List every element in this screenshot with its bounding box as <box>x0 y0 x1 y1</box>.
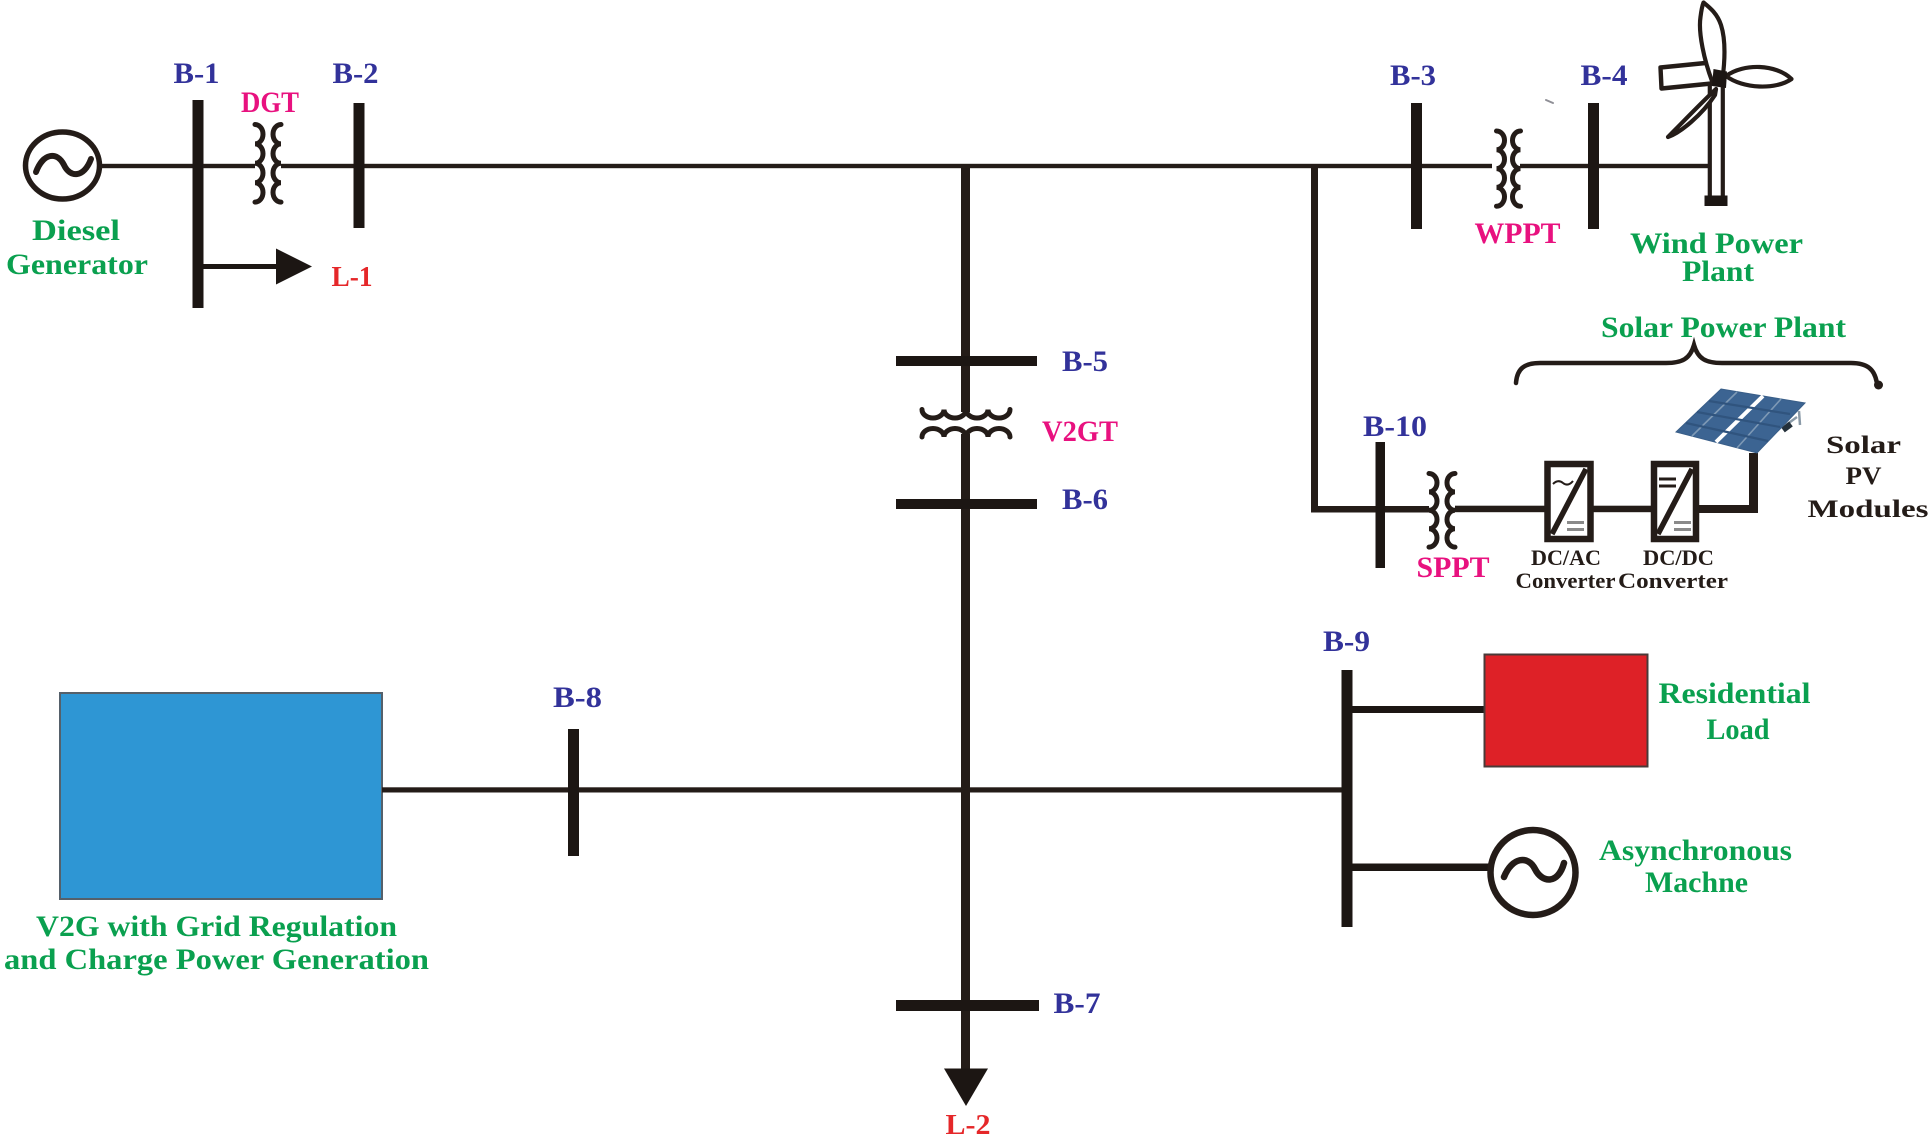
transformer DGT <box>255 125 281 203</box>
wire DGT to B-2 and main top line to B-3 <box>281 164 1492 168</box>
load arrow L-2 <box>944 1069 988 1107</box>
wire DC/AC to DC/DC <box>1590 506 1652 513</box>
svg-text:Load: Load <box>1707 714 1771 746</box>
load arrow L-1 <box>203 249 312 285</box>
svg-text:V2GT: V2GT <box>1042 416 1118 448</box>
wire DC/DC to solar PV modules <box>1696 453 1758 513</box>
svg-text:B-1: B-1 <box>174 58 220 90</box>
svg-text:B-10: B-10 <box>1363 411 1427 443</box>
svg-text:L-2: L-2 <box>946 1110 991 1138</box>
label converter U2 DC/DC Converter <box>1618 545 1728 593</box>
svg-text:Converter: Converter <box>1516 568 1616 593</box>
svg-text:B-5: B-5 <box>1062 346 1108 378</box>
svg-text:Generator: Generator <box>6 249 148 281</box>
stray mark <box>1546 100 1553 103</box>
converter U1 DC/AC <box>1548 464 1591 539</box>
bottom feeder wire from V2G block to B-9 <box>382 787 1347 792</box>
svg-text:B-8: B-8 <box>553 682 602 714</box>
wire B-9 to asynchronous machine <box>1352 864 1489 872</box>
svg-text:Modules: Modules <box>1808 496 1929 523</box>
svg-text:B-7: B-7 <box>1054 988 1101 1020</box>
svg-text:PV: PV <box>1846 463 1882 490</box>
wire B-1 to DGT <box>203 164 255 168</box>
svg-text:DGT: DGT <box>241 87 299 119</box>
bus B-6 <box>896 499 1037 509</box>
svg-text:SPPT: SPPT <box>1417 552 1490 584</box>
bus B-3 <box>1411 103 1422 229</box>
svg-text:Solar: Solar <box>1826 432 1901 459</box>
svg-text:Machne: Machne <box>1645 867 1748 899</box>
bus B-5 <box>896 356 1037 366</box>
transformer SPPT <box>1429 474 1455 548</box>
bus B-7 <box>896 1000 1039 1011</box>
svg-text:DC/AC: DC/AC <box>1531 545 1601 570</box>
svg-text:and Charge Power Generation: and Charge Power Generation <box>4 943 429 976</box>
converter U2 DC/DC <box>1654 464 1696 539</box>
svg-text:Plant: Plant <box>1682 256 1754 288</box>
V2G block (blue rectangle) <box>60 693 382 899</box>
label V2G with Grid Regulation and Charge Power Generation <box>4 910 429 976</box>
svg-text:L-1: L-1 <box>332 262 373 293</box>
residential load block (red rectangle) <box>1485 655 1648 767</box>
svg-text:Asynchronous: Asynchronous <box>1599 835 1792 867</box>
wire drop from main line to SPPT row <box>1311 166 1429 513</box>
bus B-10 <box>1376 442 1386 568</box>
bus B-9 <box>1342 670 1353 927</box>
asynchronous machine M1 <box>1491 830 1576 915</box>
central feeder wire (top segment to V2GT) <box>961 166 970 412</box>
svg-text:Diesel: Diesel <box>32 215 120 247</box>
svg-text:Solar Power Plant: Solar Power Plant <box>1601 312 1846 344</box>
brace over Solar Power Plant <box>1516 345 1883 390</box>
svg-text:V2G with Grid Regulation: V2G with Grid Regulation <box>36 910 397 943</box>
central feeder wire (V2GT down to L-2 arrow) <box>961 434 970 1069</box>
label Wind Power Plant <box>1630 228 1803 288</box>
wind turbine (Wind Power Plant) <box>1661 3 1792 207</box>
svg-text:B-6: B-6 <box>1062 484 1108 516</box>
svg-text:B-3: B-3 <box>1390 60 1436 92</box>
svg-text:DC/DC: DC/DC <box>1643 545 1714 570</box>
svg-text:WPPT: WPPT <box>1475 218 1561 250</box>
svg-text:Converter: Converter <box>1618 568 1728 593</box>
bus B-1 <box>193 100 204 308</box>
svg-text:B-2: B-2 <box>333 58 379 90</box>
wire G1 to B-1 <box>97 164 193 168</box>
svg-text:B-4: B-4 <box>1581 60 1628 92</box>
bus B-8 <box>568 729 579 856</box>
wire WPPT to B-4 to wind tower <box>1520 164 1710 168</box>
label Residential Load <box>1659 678 1811 746</box>
wire SPPT to DC/AC converter <box>1455 506 1547 513</box>
label Asynchronous Machne <box>1599 835 1792 899</box>
bus B-4 <box>1588 103 1599 229</box>
wire B-9 to residential load <box>1352 706 1486 713</box>
label Solar PV Modules <box>1808 432 1929 523</box>
node junction main line / central feeder <box>961 166 970 168</box>
svg-text:B-9: B-9 <box>1323 626 1370 658</box>
bus B-2 <box>354 103 365 228</box>
transformer WPPT <box>1497 131 1521 206</box>
label Diesel Generator <box>6 215 148 281</box>
label converter U1 DC/AC Converter <box>1516 545 1616 593</box>
transformer V2GT <box>922 410 1010 438</box>
generator G1 (Diesel Generator AC source) <box>26 132 100 199</box>
solar PV module panel <box>1676 389 1805 453</box>
svg-text:Residential: Residential <box>1659 678 1811 710</box>
